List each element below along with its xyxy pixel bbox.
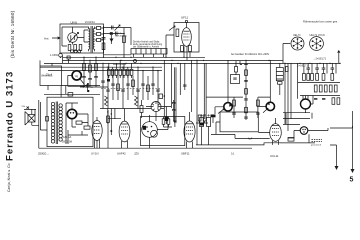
resistor R33 <box>322 74 325 81</box>
svg-text:→2×UEL71: →2×UEL71 <box>313 57 327 60</box>
svg-text:(bis Gerät Nr. 16560): (bis Gerät Nr. 16560) <box>10 10 16 58</box>
tuner tail verticals <box>108 109 121 136</box>
wire UKW internal top <box>62 27 89 46</box>
between wires v2 <box>170 63 172 108</box>
svg-text:Röhrensockel von unten ges.: Röhrensockel von unten ges. <box>303 20 338 24</box>
wire rect bottom <box>280 134 315 143</box>
capacitor C1 <box>112 26 114 30</box>
box inner resistor Rd <box>84 126 90 129</box>
electrolytic E1 <box>200 118 204 127</box>
coupling boxes B3 <box>97 39 101 42</box>
tube V2 grid <box>184 34 190 40</box>
svg-text:Ferrando U 3173: Ferrando U 3173 <box>4 71 15 161</box>
bus line 1 <box>63 56 205 58</box>
mid clutter capacitor C13 <box>82 77 86 78</box>
small box low <box>159 94 163 99</box>
coupling boxes B1 <box>97 27 101 30</box>
svg-text:Ug: Ug <box>75 74 79 78</box>
tuner wire v6 <box>127 71 129 100</box>
electrolytic wires <box>202 127 209 145</box>
resistor R6 <box>176 29 179 37</box>
svg-text:bei Geräten für Allstrom 110–2: bei Geräten für Allstrom 110–220V <box>231 53 270 56</box>
power grid wire top <box>298 82 340 84</box>
resistor row R13 <box>123 69 126 75</box>
resistor R51 <box>235 67 238 73</box>
tube V4 anode <box>94 122 100 124</box>
transformer T1 winding right <box>93 27 94 52</box>
resistor R46 <box>68 93 73 96</box>
svg-text:UCL11: UCL11 <box>270 154 279 158</box>
cap stubs <box>308 69 332 73</box>
svg-text:1.UKW: 1.UKW <box>50 54 59 57</box>
IF tube T2 drop <box>269 60 271 102</box>
capacitor C7 <box>121 90 125 91</box>
UKW jack circle a <box>71 50 74 53</box>
tube V5 grid <box>121 127 128 134</box>
shielded cable pair <box>204 63 206 119</box>
wire drop x103.5 <box>103 26 105 57</box>
capacitor C24 <box>306 68 310 69</box>
V3 link wires <box>146 100 174 124</box>
svg-text:gestrichelt: gestrichelt <box>311 143 321 146</box>
resistor R17 <box>147 85 150 92</box>
resistor R8 <box>189 46 192 52</box>
between wires pair <box>175 67 176 123</box>
power feeder v1 <box>284 63 286 124</box>
resistor R7 <box>181 46 184 52</box>
tube V7 grid <box>186 127 193 134</box>
capacitor C4 <box>101 81 105 82</box>
svg-text:Wellensch.: Wellensch. <box>41 75 53 78</box>
tuner wire v2 <box>107 67 109 108</box>
wire tube drops <box>184 46 190 60</box>
resistor R38 <box>334 85 337 92</box>
detector inner dots <box>146 126 152 133</box>
box resistor Rf <box>167 119 170 125</box>
wire small arrow right <box>338 51 340 64</box>
rectifier tube V4 <box>92 121 102 141</box>
resistor row stubs <box>109 60 132 78</box>
box top verticals <box>61 84 88 97</box>
between wires v4 <box>184 63 186 90</box>
tuner wire v10 <box>147 76 149 100</box>
capacitor C21 <box>256 113 260 114</box>
tube socket S1 <box>291 37 304 50</box>
detector circle V6 <box>142 122 158 138</box>
indicator bold circle <box>72 71 81 80</box>
svg-text:der Skalenseile u. Antrieb: der Skalenseile u. Antrieb <box>133 46 160 49</box>
capacitor C22 <box>183 85 186 86</box>
between wires v3 <box>179 63 181 95</box>
svg-text:UBF11: UBF11 <box>181 152 190 156</box>
resistor R23 <box>245 107 248 113</box>
grid bias resistor Rb <box>203 115 206 121</box>
IF transformer box <box>276 68 283 81</box>
box inner wires <box>66 103 88 144</box>
resistor row R14b <box>130 69 133 75</box>
resistor R41 <box>337 98 340 105</box>
mid clutter capacitor C14 <box>88 79 92 80</box>
UKW jack circle b <box>74 50 77 53</box>
grid arrow <box>169 26 175 31</box>
wire UKW out lower <box>104 33 125 35</box>
power col wires <box>298 63 336 98</box>
mains arrow mid <box>335 166 339 170</box>
grid bias wires <box>196 117 213 123</box>
coupling wires <box>95 28 104 40</box>
tube V2 top cap wire <box>186 23 188 28</box>
resistor R45 <box>288 138 294 142</box>
tube V4 pins <box>95 117 100 148</box>
svg-text:Czeija, Nissl u. Co: Czeija, Nissl u. Co <box>7 163 11 192</box>
IF tube T1 bold <box>224 103 232 111</box>
resistor R1 <box>68 45 71 51</box>
transformer tail wire <box>279 63 281 95</box>
tuner wire v5 <box>122 67 124 108</box>
tube V1 electrodes <box>71 35 75 40</box>
speaker bottom wire <box>32 122 39 125</box>
capacitor C26 <box>322 68 326 69</box>
mid clutter resistor R20 <box>95 64 98 71</box>
power feeder v2 <box>287 63 289 131</box>
capacitor C3 <box>102 38 106 40</box>
tube V5 wires <box>122 109 128 149</box>
connector stubs <box>134 54 164 57</box>
wire UKW out upper <box>104 27 132 29</box>
wire bottom return long <box>39 147 252 149</box>
svg-text:Drehko-Antrieb und Skala: Drehko-Antrieb und Skala <box>133 40 160 43</box>
feedthrough cap dark <box>110 32 113 35</box>
IF tube T1 blob <box>229 103 232 107</box>
tube V1 circle <box>68 33 78 43</box>
power feeder v3 <box>290 63 292 118</box>
bus line 5 <box>48 70 162 72</box>
mid clutter resistor R19 <box>89 65 92 72</box>
tube V8 wires <box>258 118 278 145</box>
ballast dots <box>70 112 74 114</box>
tube stage box <box>174 23 199 53</box>
mid clutter resistor R18 <box>83 64 86 71</box>
between wires v5 <box>191 60 193 112</box>
capacitor C19 <box>244 117 248 118</box>
pot arrow <box>83 84 89 88</box>
mid clutter capacitor C15 <box>94 77 98 78</box>
output transformer core <box>56 102 57 145</box>
wave switch stubs <box>40 60 100 90</box>
R51 wires <box>236 61 242 75</box>
bus line 3 <box>44 62 340 64</box>
box capacitor Cc <box>173 120 176 121</box>
resistor R30 <box>307 74 310 81</box>
rectifier dots <box>302 129 306 133</box>
tuner wire v1 <box>102 63 104 108</box>
power grid wire mid <box>300 95 340 97</box>
capacitor C6 <box>111 84 115 85</box>
wire drop x124 <box>123 28 125 58</box>
output tube A <box>301 99 311 109</box>
tail dots <box>107 111 112 114</box>
output transformer winding left <box>51 102 54 143</box>
connector strip dividers <box>136 49 161 55</box>
speaker cap mark <box>27 107 30 109</box>
AF tube V7 envelope <box>184 121 195 142</box>
resistor R31 <box>311 74 314 81</box>
resistor R15 <box>117 84 120 91</box>
junction dots row <box>60 57 341 72</box>
capacitor C27 <box>331 68 335 69</box>
wire arrow mid <box>330 145 337 166</box>
trimmer arrow V1 <box>69 33 79 43</box>
IF link right <box>257 97 270 106</box>
resistor R36 <box>324 85 327 92</box>
capacitor C18 <box>244 99 248 100</box>
resistor R5 <box>102 43 105 50</box>
detector wires <box>150 115 169 148</box>
wire rect right <box>308 128 328 131</box>
arrow T2 <box>263 108 268 113</box>
wire tube left <box>166 35 174 57</box>
resistor R34 <box>314 85 317 92</box>
wire socket left lead <box>283 44 290 64</box>
capacitor C10 <box>141 84 145 85</box>
dark component box <box>165 117 169 122</box>
IF tube T1 drop <box>227 60 229 102</box>
svg-text:125 mA: 125 mA <box>63 136 72 139</box>
wire tube B link <box>330 126 353 128</box>
dark component blob <box>107 79 110 82</box>
wire UKW internal left low <box>62 42 73 46</box>
IF link left <box>206 97 243 114</box>
capacitor C29 <box>172 103 175 104</box>
UKW unit box <box>60 24 104 53</box>
wire bottom return upper <box>196 143 315 145</box>
wire verticals to box <box>39 100 47 148</box>
resistor R50 <box>46 117 49 122</box>
svg-text:AM 460kHz: AM 460kHz <box>116 35 127 38</box>
tube V2 envelope <box>182 28 192 47</box>
capacitor C9 <box>136 90 140 91</box>
tube socket S2 <box>310 37 324 51</box>
resistor R2 <box>74 45 77 51</box>
resistor row R11 <box>115 69 118 75</box>
resistor R33b <box>331 74 334 81</box>
capacitor C25 <box>315 68 319 69</box>
svg-text:UAF42: UAF42 <box>117 152 126 156</box>
bus line 4 <box>40 66 162 68</box>
box part wires <box>164 117 175 128</box>
wave switch box <box>40 66 62 86</box>
tube B down wire <box>352 111 354 169</box>
grid bias resistor Ra <box>198 115 201 121</box>
svg-text:UF11: UF11 <box>181 16 188 20</box>
resistor R32 <box>316 74 319 81</box>
IF tube T2 blob <box>267 102 270 105</box>
R49 wires <box>141 100 143 118</box>
capacitor C32 <box>322 99 325 100</box>
node dot x124 <box>123 33 125 35</box>
resistor R49 <box>140 106 143 113</box>
mains arrow right <box>351 169 355 173</box>
IF inner left wire <box>233 97 235 118</box>
tube V5 anode <box>121 123 128 125</box>
svg-text:UY1N: UY1N <box>91 152 98 156</box>
svg-text:2×UF11: 2×UF11 <box>85 20 95 24</box>
speaker cone <box>25 112 28 126</box>
IF transformer hatch <box>276 72 283 80</box>
box top line <box>44 93 100 95</box>
between wires v1 <box>163 60 165 116</box>
svg-text:5: 5 <box>350 177 354 184</box>
resistor R22 <box>245 89 248 95</box>
tuner wire v8 <box>137 67 139 108</box>
box resistor Re <box>162 119 165 125</box>
tuner collect wire <box>100 108 151 110</box>
coupling boxes B2 <box>97 33 101 36</box>
low box dot <box>164 95 166 97</box>
antenna jack <box>59 53 63 57</box>
feed cap <box>86 86 89 87</box>
mid clutter wires <box>80 57 108 87</box>
tube A lower wires <box>306 96 314 113</box>
transformer T1 winding left <box>89 27 90 52</box>
capacitor C30 <box>172 110 175 111</box>
svg-text:300Ω 1W: 300Ω 1W <box>62 140 73 143</box>
capacitor C2 <box>116 32 118 36</box>
tube V2 top cap <box>185 20 187 22</box>
resistor R16 <box>132 80 135 87</box>
svg-text:JZ0: JZ0 <box>134 152 139 156</box>
wire tube V3 down <box>155 112 157 122</box>
AF stage box <box>141 117 185 146</box>
speaker top wire <box>24 109 36 114</box>
resistor R25 <box>257 100 260 106</box>
capacitor C8 <box>126 84 130 85</box>
output transformer winding right <box>59 104 62 141</box>
speaker hatch <box>28 115 35 123</box>
svg-text:Bereichswahl: Bereichswahl <box>113 63 127 66</box>
resistor R29 <box>303 74 306 81</box>
tuner wire v3 <box>112 71 114 100</box>
electrolytic E2 <box>207 118 211 127</box>
dark blob component <box>200 123 204 126</box>
capacitor C31 <box>314 99 317 100</box>
wire drop x131 <box>130 28 132 46</box>
electrolytic marks <box>200 114 210 117</box>
trimmer arrow <box>115 25 121 31</box>
feed dark dot <box>87 90 89 92</box>
IF tube T2 bold <box>266 102 274 110</box>
wire to transformer <box>77 30 88 42</box>
tuner wire v11 <box>152 67 154 95</box>
AF tube V5 envelope <box>119 121 130 142</box>
svg-text:4µF: 4µF <box>248 138 253 141</box>
svg-text:2500Ω→: 2500Ω→ <box>38 151 49 155</box>
grid bias component dark <box>211 115 216 118</box>
bus line 2 <box>63 59 284 61</box>
IF inner right wire <box>257 97 259 118</box>
chassis box bottom left <box>47 97 93 146</box>
resistor row R9 <box>108 69 111 75</box>
ballast wires <box>72 103 88 127</box>
mixer tube V8 envelope <box>270 124 282 142</box>
IF loop cap <box>233 78 236 79</box>
drop x111 <box>110 35 112 44</box>
transformer tail <box>278 82 283 85</box>
svg-text:UKW: UKW <box>71 20 78 24</box>
capacitor C20 <box>232 113 236 114</box>
AVC arrow <box>218 109 224 114</box>
power h wire 1 <box>283 112 310 114</box>
tube V3 spokes <box>151 102 161 111</box>
resistor R21 <box>245 70 248 76</box>
tail dark dot <box>110 130 112 132</box>
coil L1 <box>105 96 108 106</box>
coil L2 <box>135 96 138 106</box>
power h wire 2 <box>283 118 310 120</box>
wire box right v2 <box>107 110 109 148</box>
speaker body <box>28 115 35 123</box>
connector strip box <box>131 49 167 55</box>
IF chain wire <box>245 60 247 120</box>
tuner wire v4 <box>117 76 119 100</box>
tube V4 grid <box>94 127 100 134</box>
antenna arrow <box>52 37 60 39</box>
tube V3 circle <box>151 102 161 112</box>
resistor R4 <box>123 36 126 43</box>
ballast tube bold <box>67 109 76 118</box>
tuner wire v9 <box>142 71 144 100</box>
tube V8 anode <box>272 125 279 127</box>
dashed part row <box>312 140 323 142</box>
coupling cap dark <box>110 39 114 43</box>
capacitor C12 <box>156 90 160 91</box>
resistor row R14 <box>127 69 130 75</box>
tube V8 grid <box>272 129 279 136</box>
transformer T1 core <box>91 26 92 53</box>
detector small circle <box>151 130 158 137</box>
wire x197 <box>196 60 198 144</box>
capacitor C16 <box>244 63 248 64</box>
resistor R48 <box>107 116 110 123</box>
box inner resistor Rc <box>76 121 82 124</box>
svg-text:Ant: Ant <box>44 36 49 40</box>
svg-text:siehe gesonderte Zeichnung: siehe gesonderte Zeichnung <box>133 43 163 46</box>
resistor R24 <box>233 100 236 106</box>
wire rect left <box>288 131 300 139</box>
resistor R35 <box>319 85 322 92</box>
resistor R40 <box>332 98 335 105</box>
resistor row R10 <box>111 69 114 75</box>
rectifier circle <box>300 127 308 135</box>
resistor R37 <box>329 85 332 92</box>
connector bottom lead <box>104 54 132 56</box>
resistor row R12 <box>119 69 122 75</box>
capacitor C11 <box>151 84 155 85</box>
tube V7 anode <box>186 123 193 125</box>
svg-text:30pF Tr.: 30pF Tr. <box>115 32 123 35</box>
power box verticals <box>286 113 312 125</box>
output tube A stubs <box>303 96 308 100</box>
tube V2 anode <box>184 30 190 32</box>
IF loop wire <box>231 75 240 84</box>
jack drop wire <box>63 56 69 64</box>
capacitor C5 <box>106 90 110 91</box>
power h wire 3 <box>283 123 300 125</box>
small part near jack <box>67 56 70 59</box>
resistor R3 <box>79 45 82 51</box>
svg-text:2×UEL71: 2×UEL71 <box>297 64 308 68</box>
UKW jack circle c <box>78 50 81 53</box>
